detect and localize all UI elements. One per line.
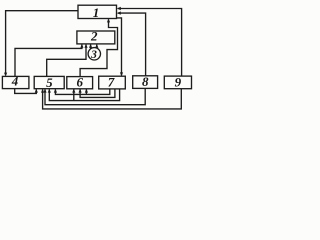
arrowhead L3 to 5 [48, 89, 51, 93]
arrowhead L2 to 6 [79, 89, 82, 93]
svg-text:8: 8 [142, 74, 149, 89]
arrowhead L5 to 5 [41, 89, 44, 93]
wire L1 branch to 6 [85, 89, 87, 94]
wire 7 to 6 and 5 bus L1 [55, 89, 109, 95]
block 6 [67, 77, 93, 89]
block 5 [34, 76, 64, 88]
arrowhead 3 to 2 left [89, 44, 92, 48]
svg-text:2: 2 [90, 29, 98, 44]
wire 8 to 5 bus L4 [45, 88, 145, 104]
wire 4 to 2 [15, 45, 82, 77]
arrowhead 8 to 1 [117, 11, 121, 14]
wire 1 to 4 [6, 11, 78, 76]
wire 6 to 1 [80, 19, 117, 76]
block 2 [77, 31, 115, 44]
svg-text:1: 1 [93, 5, 100, 20]
arrowhead 3 to 2 right [95, 44, 98, 48]
svg-text:3: 3 [90, 49, 97, 61]
arrowhead L1 to 5 [54, 89, 57, 93]
svg-text:7: 7 [108, 75, 115, 90]
arrowhead L3 to 6 [72, 89, 75, 93]
wire L3 branch to 6 [73, 89, 75, 100]
svg-text:4: 4 [11, 74, 19, 89]
block 7 [99, 76, 126, 89]
wire 1 to 7 [117, 18, 122, 76]
arrowhead into 4 top [4, 73, 7, 77]
wire 9 to 1 [118, 9, 182, 77]
wire 3 to 2 left [90, 45, 92, 49]
arrowhead L1 to 6 [85, 89, 88, 93]
circle 3 [88, 48, 100, 60]
arrowhead 5 to 2 [84, 44, 87, 48]
wire 3 to 2 right [96, 45, 98, 49]
block 8 [133, 76, 158, 89]
svg-text:6: 6 [77, 75, 84, 90]
block 1 [78, 5, 117, 18]
wire 7 to 6 and 5 bus L3 [49, 89, 119, 101]
svg-text:9: 9 [175, 75, 182, 90]
wire 7 to 6 bus L2 [80, 89, 115, 98]
block 9 [164, 76, 191, 89]
arrowhead 9 to 1 [117, 7, 121, 10]
block 4 [2, 76, 29, 88]
svg-text:5: 5 [46, 75, 53, 90]
arrowhead 4 to 5 [35, 89, 38, 93]
wire 9 to 5 bus L5 [43, 89, 182, 109]
wire 4 to 5 [15, 89, 37, 94]
arrowhead L4 to 5 [43, 89, 46, 93]
wire 5 to 2 [47, 45, 86, 77]
arrowhead 4 to 2 [80, 44, 83, 48]
arrowhead 6 to 1 [107, 19, 110, 23]
wire 8 to 1 [118, 13, 146, 76]
arrowhead 1 to 7 [120, 72, 123, 76]
